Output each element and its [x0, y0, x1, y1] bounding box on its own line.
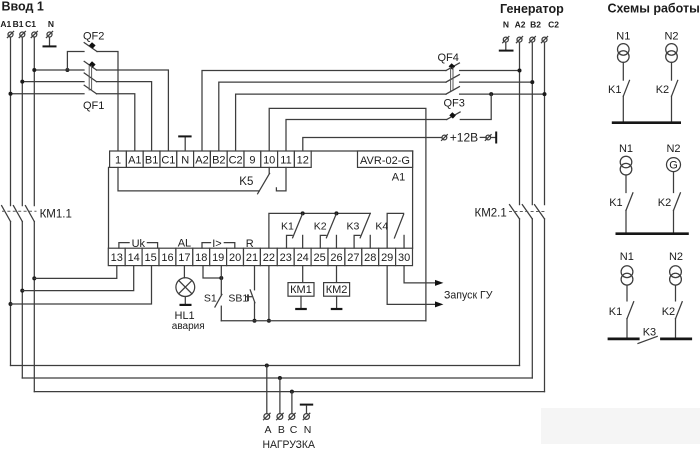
faint gray region bottom right [541, 408, 700, 444]
wire load N drop [306, 406, 308, 414]
svg-text:N1: N1 [619, 143, 633, 155]
wire terminal 22 down [268, 266, 270, 321]
terminal box 14 [125, 248, 142, 265]
terminal box 26 [328, 248, 345, 265]
scheme3 switch K3 blade [638, 336, 657, 343]
svg-text:НАГРУЗКА: НАГРУЗКА [262, 439, 315, 449]
terminal +12V right [485, 135, 491, 141]
node junction QF1 pole2 on B1 [20, 80, 24, 84]
scheme1 busbar [612, 121, 681, 124]
relay K3 terminal 28 stub [369, 235, 371, 248]
scheme3 transformer N1 [621, 266, 633, 278]
breaker QF1 pole 1 wire left [34, 69, 84, 71]
relay K1 terminal 24 stub [302, 235, 304, 248]
node junction load B [278, 376, 282, 380]
svg-text:23: 23 [280, 252, 292, 264]
svg-text:C2: C2 [229, 154, 243, 166]
svg-text:+12В: +12В [450, 131, 478, 145]
svg-text:K1: K1 [281, 220, 294, 232]
svg-text:Uk: Uk [132, 238, 146, 250]
dash before terminal [480, 136, 486, 138]
terminal load C [289, 413, 296, 420]
breaker QF3 wire right and riser [460, 94, 491, 119]
relay K5 fixed contact terminal 11 [276, 168, 286, 191]
wire load bus B [22, 377, 532, 379]
scheme3 wire N2 [675, 285, 677, 301]
terminal box N [177, 151, 194, 167]
wire terminal 24 to KM1 coil [302, 266, 304, 283]
svg-text:C1: C1 [25, 19, 36, 29]
wire terminal 17 to HL1 [183, 266, 185, 278]
svg-text:15: 15 [144, 252, 156, 264]
wire gen N stub [505, 42, 507, 50]
node junction terminal 15 tap [9, 302, 13, 306]
wire load A drop [266, 366, 268, 414]
terminal N gen [503, 37, 509, 43]
wire gen phase A2 lower [519, 219, 521, 366]
AVR block left edge [108, 167, 110, 248]
svg-text:18: 18 [195, 252, 207, 264]
breaker QF1 pole 2 wire right to B1 stub [97, 82, 152, 151]
svg-text:16: 16 [161, 252, 173, 264]
scheme2 wire N1 [625, 175, 627, 193]
terminal box B1 [143, 151, 160, 167]
scheme3 wire N1 [626, 285, 628, 301]
svg-text:QF2: QF2 [83, 30, 104, 42]
scheme2 wire N2 [673, 172, 675, 193]
svg-text:K2: K2 [656, 84, 669, 96]
node junction QF1 pole1 on C1 [32, 68, 36, 72]
AVR block right edge [412, 151, 414, 248]
terminal box 24 [294, 248, 311, 265]
node junction QF1 pole3 on A1 [9, 92, 13, 96]
terminal box 12 [294, 151, 311, 167]
scheme1 wire N2 [671, 62, 673, 80]
svg-text:N: N [181, 154, 189, 166]
relay K5 wire terminal 10 stub [268, 168, 270, 174]
scheme2 transformer N1 [620, 156, 632, 168]
wire phase A1 upper [10, 37, 12, 205]
node junction QF3 riser on pole 3 [489, 92, 493, 96]
node junction terminal 13 tap [32, 276, 36, 280]
svg-text:А: А [264, 424, 271, 436]
node junction SB1 on rail [253, 319, 257, 323]
breaker QF4 pole 1 diamond [449, 63, 456, 69]
wire phase B1 upper [21, 37, 23, 205]
breaker QF4 pole 3 blade [446, 87, 459, 95]
breaker QF2 blade [84, 43, 97, 52]
terminal B1 input [19, 31, 25, 37]
breaker QF1 pole 3 blade [84, 85, 96, 94]
svg-text:N: N [48, 19, 54, 29]
svg-text:10: 10 [263, 154, 275, 166]
wire gen phase C2 upper [544, 42, 546, 204]
node junction K2 on bus [334, 211, 338, 215]
svg-text:B2: B2 [212, 154, 225, 166]
svg-text:КМ2: КМ2 [326, 284, 348, 296]
svg-text:22: 22 [263, 252, 275, 264]
svg-text:K5: K5 [239, 176, 253, 188]
terminal C2 gen [541, 37, 547, 43]
wire phase B1 lower [21, 222, 23, 379]
relay K2 fixed contact [320, 235, 326, 248]
breaker QF1 pole 1 wire right to C1 stub [97, 70, 169, 151]
wire terminal 18 stub [203, 266, 221, 278]
svg-text:B1: B1 [145, 154, 158, 166]
node junction QF4 pole2 on B2 [530, 80, 534, 84]
terminal box 11 [278, 151, 295, 167]
wire gen phase C2 lower [544, 219, 546, 392]
relay K5 blade [258, 173, 270, 193]
breaker QF1 pole 1 diamond [89, 61, 96, 67]
wire to terminal 15 [11, 266, 152, 304]
wire terminal 22 riser and K bus [269, 213, 370, 248]
breaker QF4 pole 2 wire left from B2 stub [219, 82, 446, 151]
scheme2 switch K1 blade [626, 193, 633, 211]
terminal box A2 [194, 151, 211, 167]
scheme2 wire K2 lower [673, 210, 675, 232]
svg-text:12: 12 [297, 154, 309, 166]
svg-text:K4: K4 [375, 220, 388, 232]
wire gen phase B2 upper [531, 42, 533, 204]
HL1 ground bar [180, 304, 192, 306]
svg-text:K2: K2 [658, 197, 671, 209]
svg-text:K3: K3 [347, 220, 360, 232]
svg-text:Схемы работы: Схемы работы [608, 1, 700, 15]
svg-text:21: 21 [246, 252, 258, 264]
svg-text:AVR-02-G: AVR-02-G [360, 155, 410, 167]
svg-text:B2: B2 [530, 20, 541, 30]
node junction QF2 branch on C1 line [65, 68, 69, 72]
terminal A2 gen [516, 37, 522, 43]
svg-text:19: 19 [212, 252, 224, 264]
relay K1 blade [293, 213, 303, 237]
relay K2 blade [326, 213, 336, 237]
breaker QF4 pole 3 wire left from C2 stub [236, 94, 446, 151]
svg-text:A1: A1 [128, 154, 141, 166]
battery bar [495, 132, 497, 144]
relay K4 terminal 30 stub [403, 235, 405, 248]
scheme1 transformer N2 [666, 44, 678, 56]
button SB1 blade [250, 290, 255, 303]
contactor KM2.1 pole 2 blade [522, 205, 532, 219]
gen N rail bar [499, 50, 514, 52]
breaker QF1 pole 1 blade [84, 61, 96, 70]
wire HL1 lower stem [184, 297, 186, 305]
svg-text:R: R [246, 238, 254, 250]
wire KM2 coil lower stem [336, 296, 338, 308]
terminal box 21 [244, 248, 261, 265]
svg-text:K1: K1 [608, 84, 621, 96]
breaker QF4 pole 1 wire left from A2 stub [202, 71, 446, 151]
scheme3 right busbar [660, 338, 692, 341]
scheme1 wire K2 lower [671, 96, 673, 121]
scheme1 wire K1 lower [622, 96, 624, 121]
scheme3 switch K1 blade [627, 302, 634, 319]
svg-text:N2: N2 [669, 251, 683, 263]
wire gen phase A2 upper [519, 42, 521, 204]
terminal box 30 [396, 248, 413, 265]
node junction load A [265, 364, 269, 368]
terminal box C2 [227, 151, 244, 167]
svg-text:25: 25 [313, 252, 325, 264]
svg-text:Ввод 1: Ввод 1 [2, 0, 44, 14]
svg-text:QF3: QF3 [444, 97, 465, 109]
svg-text:27: 27 [347, 252, 359, 264]
relay K3 blade [360, 213, 370, 237]
svg-text:КМ1: КМ1 [290, 284, 312, 296]
terminal box 25 [311, 248, 328, 265]
terminal box 16 [159, 248, 176, 265]
KM1 ground bar [295, 308, 307, 310]
terminal box 27 [345, 248, 362, 265]
svg-text:C1: C1 [161, 154, 175, 166]
wire S1 lower [220, 306, 222, 321]
svg-text:28: 28 [364, 252, 376, 264]
scheme2 busbar [616, 232, 689, 235]
arrow output 29 [435, 301, 443, 307]
Uk bracket left [119, 243, 129, 248]
wire terminal 12 to +12V [303, 138, 442, 151]
svg-text:14: 14 [128, 252, 140, 264]
svg-text:13: 13 [111, 252, 123, 264]
wire terminal 26 to KM2 coil [336, 266, 338, 283]
wire phase A1 lower [10, 222, 12, 366]
svg-text:В: В [278, 424, 285, 436]
svg-text:С: С [290, 424, 298, 436]
terminal box 13 [108, 248, 125, 265]
load N T-bar [300, 404, 313, 406]
I> bracket left [202, 243, 211, 248]
wire load bus C [34, 391, 544, 393]
scheme3 wire K2 lower [675, 319, 677, 338]
N terminal T symbol bar [178, 135, 191, 137]
wire load C drop [291, 392, 293, 414]
node junction K1 on bus [301, 211, 305, 215]
node junction terminal 14 tap [20, 289, 24, 293]
Uk bracket right [147, 243, 157, 248]
terminal box 20 [227, 248, 244, 265]
svg-text:Генератор: Генератор [500, 2, 564, 16]
button SB1 actuator [247, 294, 249, 301]
terminal N input [46, 31, 52, 37]
breaker QF4 coupling link [450, 67, 452, 91]
contactor KM1.1 pole 1 blade [2, 206, 11, 222]
svg-text:S1: S1 [204, 292, 217, 304]
scheme2 wire K1 lower [625, 210, 627, 232]
wire load bus A [11, 365, 520, 367]
KM2 ground bar [331, 308, 343, 310]
scheme3 wire K1 lower [626, 319, 628, 338]
breaker QF1 pole 2 blade [84, 73, 96, 82]
svg-text:K1: K1 [609, 197, 622, 209]
wire to battery bar [491, 137, 495, 139]
terminal C1 input [31, 31, 37, 37]
scheme3 left busbar [608, 338, 640, 341]
svg-text:K1: K1 [609, 306, 622, 318]
breaker QF1 pole 3 wire left [11, 93, 85, 95]
breaker QF1 coupling link [88, 66, 90, 91]
terminal load B [277, 413, 284, 420]
relay K2 terminal 26 stub [335, 235, 337, 248]
scheme3 switch K2 blade [676, 302, 683, 319]
svg-text:A1: A1 [0, 19, 11, 29]
terminal box 15 [142, 248, 159, 265]
scheme1 wire N1 [622, 62, 624, 80]
relay K4 wire terminal 29 riser [387, 213, 403, 248]
lamp HL1 circle [176, 278, 195, 297]
wire phase C1 lower [33, 222, 35, 392]
svg-text:N1: N1 [620, 251, 634, 263]
wire gen phase B2 lower [531, 219, 533, 378]
AVR block top edge [311, 150, 412, 152]
breaker QF4 pole 1 blade [446, 63, 459, 71]
wire terminal 10 to minus rail [269, 108, 426, 320]
svg-text:24: 24 [297, 252, 309, 264]
svg-text:N2: N2 [666, 143, 680, 155]
contactor KM2.1 pole 1 blade [510, 205, 520, 219]
I> bracket right [224, 243, 235, 248]
N rail bar [43, 45, 57, 47]
wire QF2 branch riser [67, 52, 84, 71]
svg-text:K2: K2 [314, 220, 327, 232]
terminal box 17 [176, 248, 193, 265]
terminal A1 input [7, 31, 13, 37]
svg-text:QF1: QF1 [83, 100, 104, 112]
scheme2 generator G circle [667, 158, 681, 172]
breaker QF3 wire left from terminal 11 stub [286, 120, 447, 151]
node junction 22 on rail [267, 319, 271, 323]
scheme1 transformer N1 [618, 44, 630, 56]
terminal box 29 [379, 248, 396, 265]
svg-text:N: N [503, 20, 509, 30]
node junction QF4 pole1 on A2 [518, 69, 522, 73]
terminal box C1 [160, 151, 177, 167]
svg-text:N: N [304, 424, 312, 436]
relay K4 blade [394, 214, 403, 238]
contactor KM1.1 pole 3 blade [25, 206, 34, 222]
wire KM1 coil lower stem [300, 296, 302, 308]
breaker QF4 pole 2 blade [446, 75, 459, 83]
lamp HL1 cross [179, 281, 192, 294]
svg-text:SB1: SB1 [228, 293, 248, 305]
wire load B drop [279, 378, 281, 413]
scheme2 switch K2 blade [674, 193, 681, 211]
svg-text:A2: A2 [195, 154, 208, 166]
svg-text:29: 29 [381, 252, 393, 264]
terminal box 23 [277, 248, 294, 265]
relay K1 fixed contact [287, 235, 293, 248]
svg-text:КМ2.1: КМ2.1 [475, 208, 507, 220]
svg-text:1: 1 [115, 154, 121, 166]
svg-text:I>: I> [212, 238, 221, 250]
breaker QF1 pole 2 wire left [22, 81, 84, 83]
svg-text:N1: N1 [616, 30, 630, 42]
wire terminal 29 output [387, 266, 435, 305]
terminal box 19 [210, 248, 227, 265]
svg-text:Запуск ГУ: Запуск ГУ [444, 290, 493, 302]
breaker QF1 pole 3 wire right to A1 stub [97, 94, 135, 151]
scheme1 switch K2 blade [672, 80, 678, 96]
svg-text:КМ1.1: КМ1.1 [40, 208, 72, 220]
N terminal T symbol stem [184, 137, 186, 151]
wire SB1 lower [254, 303, 256, 321]
relay K5 wire from terminal 1 [118, 168, 259, 191]
contactor coil KM2 box [324, 283, 350, 297]
KM2.1 coupling dashed link [509, 211, 547, 213]
terminal load A [264, 413, 271, 420]
terminal box 28 [362, 248, 379, 265]
node junction 18-19 [219, 276, 223, 280]
contactor KM2.1 pole 3 blade [535, 205, 545, 219]
svg-text:A1: A1 [392, 172, 405, 184]
svg-text:30: 30 [398, 252, 410, 264]
breaker QF4 pole 1 wire right [460, 70, 520, 72]
terminal B2 gen [529, 37, 535, 43]
svg-text:17: 17 [178, 252, 190, 264]
breaker QF2 diamond [89, 42, 96, 48]
relay K3 fixed contact [354, 235, 360, 248]
svg-text:C2: C2 [548, 20, 559, 30]
contactor KM1.1 pole 2 blade [13, 206, 22, 222]
svg-text:G: G [669, 160, 678, 172]
KM1.1 coupling dashed link [2, 210, 37, 212]
switch S1 blade [215, 294, 222, 307]
svg-text:11: 11 [280, 154, 291, 166]
AVR-02-G label box [358, 151, 413, 167]
breaker QF4 pole 2 wire right [460, 81, 533, 83]
arrow output 30 [435, 280, 443, 286]
wire phase C1 upper [33, 37, 35, 205]
terminal box 9 [244, 151, 261, 167]
terminal +12V left [442, 135, 448, 141]
svg-text:K2: K2 [662, 306, 675, 318]
terminal box 10 [261, 151, 278, 167]
svg-text:9: 9 [249, 154, 255, 166]
breaker QF3 blade [447, 112, 460, 120]
terminal box 1 [110, 151, 127, 167]
svg-text:26: 26 [330, 252, 342, 264]
svg-text:N2: N2 [664, 30, 678, 42]
svg-text:20: 20 [229, 252, 241, 264]
terminal box B2 [210, 151, 227, 167]
wire minus rail [221, 320, 426, 322]
terminal box 22 [260, 248, 277, 265]
wire N stub [49, 37, 51, 45]
svg-text:B1: B1 [13, 19, 24, 29]
svg-text:авария: авария [172, 321, 205, 332]
wire terminal 30 output [404, 266, 435, 283]
wire terminal 19 stub [220, 266, 222, 295]
breaker QF4 pole 3 wire right [460, 93, 545, 95]
scheme3 transformer N2 [670, 266, 682, 278]
contactor coil KM1 box [288, 283, 314, 297]
svg-text:A2: A2 [515, 20, 526, 30]
terminal box 18 [193, 248, 210, 265]
svg-text:QF4: QF4 [438, 52, 459, 64]
wire QF2 output to terminal 1 [97, 52, 118, 151]
node junction QF4 pole3 on C2 [543, 92, 547, 96]
svg-text:K3: K3 [643, 327, 656, 339]
terminal box A1 [126, 151, 143, 167]
node junction load C [290, 390, 294, 394]
breaker QF3 diamond [449, 112, 456, 118]
wire terminal 21 stub [254, 266, 256, 290]
wire to terminal 14 [22, 266, 133, 291]
terminal load N [303, 413, 310, 420]
svg-text:AL: AL [178, 238, 191, 250]
scheme1 switch K1 blade [623, 80, 629, 96]
